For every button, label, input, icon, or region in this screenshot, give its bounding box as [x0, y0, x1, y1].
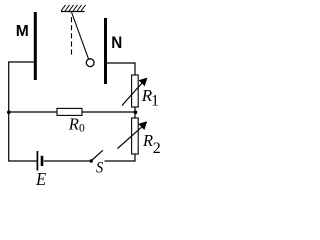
switch S pivot — [90, 159, 93, 162]
switch S blade — [92, 150, 103, 160]
svg-text:1: 1 — [151, 93, 159, 110]
wire right vertical between R1 and R2 — [134, 107, 136, 118]
plate M — [34, 12, 37, 80]
svg-text:S: S — [96, 159, 104, 177]
pendulum ball — [86, 59, 94, 67]
wire right vertical below R2 — [105, 154, 136, 161]
ceiling support hatching — [61, 5, 86, 12]
svg-text:N: N — [111, 33, 122, 52]
svg-text:R: R — [68, 114, 79, 133]
svg-text:R: R — [142, 131, 153, 150]
svg-text:2: 2 — [153, 140, 161, 157]
pendulum string — [72, 12, 89, 59]
battery E long plate — [36, 151, 38, 171]
resistor R2 — [132, 118, 139, 154]
node right junction — [134, 110, 138, 114]
resistor R0 — [57, 108, 82, 115]
svg-text:E: E — [35, 169, 46, 189]
R1 wiper arrow — [122, 83, 142, 106]
pendulum rest position (dashed) — [71, 17, 73, 55]
battery E short plate — [41, 156, 44, 166]
wire battery to switch — [44, 160, 90, 162]
R2 wiper arrow — [118, 127, 142, 148]
svg-text:M: M — [16, 23, 29, 40]
node left junction — [7, 110, 11, 114]
svg-text:0: 0 — [79, 122, 85, 135]
plate N — [104, 18, 107, 84]
wire from plate N — [107, 63, 135, 75]
wire from plate M — [9, 62, 38, 161]
resistor R1 — [132, 75, 139, 107]
wire R0 branch — [9, 111, 135, 113]
